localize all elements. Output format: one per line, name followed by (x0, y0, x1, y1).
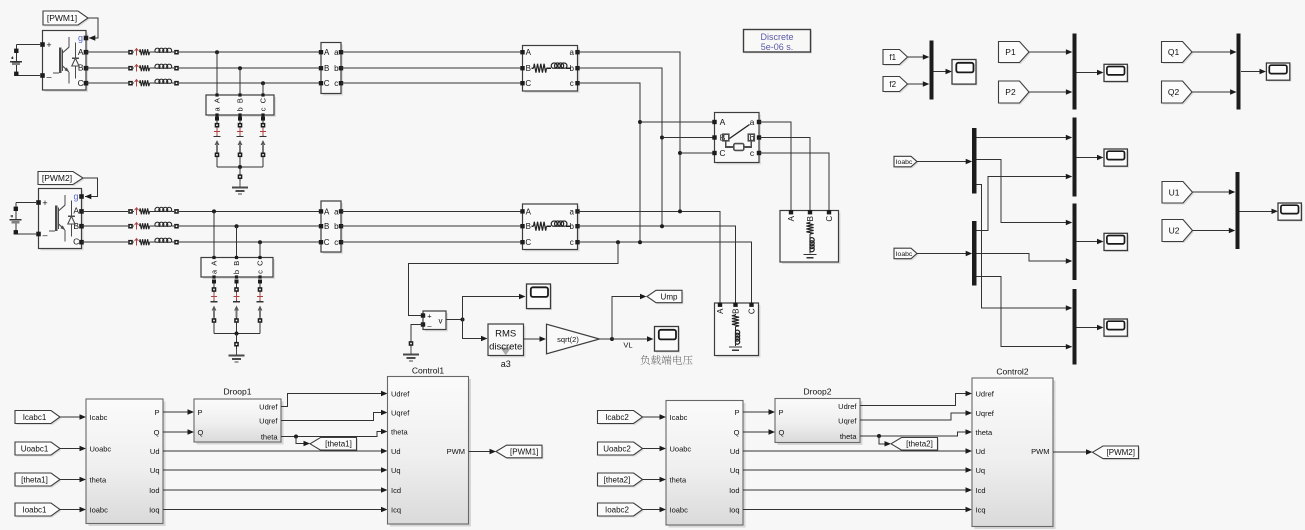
svg-text:Ioabc: Ioabc (90, 505, 109, 514)
wire RL-B2 to measure block 2 (179, 225, 321, 227)
node bus a join (678, 209, 682, 213)
svg-text:C: C (78, 78, 84, 88)
node theta1 branch (294, 435, 298, 439)
node neutral 1 (238, 165, 242, 169)
wire DM1.3 to MXC.1 (976, 185, 1072, 311)
node B1 tap (238, 66, 242, 70)
controller block Control2 (972, 378, 1056, 529)
svg-text:[theta2]: [theta2] (906, 440, 933, 449)
wire B2a to filter2 (341, 210, 523, 212)
voltage measurement block VM (421, 311, 448, 332)
svg-text:PWM: PWM (447, 447, 465, 456)
svg-text:a: a (334, 48, 339, 57)
wire node to scope S1 (463, 294, 526, 320)
wire filter2 b to load1 (578, 226, 736, 304)
svg-text:C: C (73, 237, 79, 247)
wire PWM2 to gate g2 (83, 178, 98, 199)
svg-text:a3: a3 (501, 359, 511, 369)
mux MXA (1072, 118, 1076, 197)
scope SP (1104, 64, 1129, 83)
wire filter1 a down to bus (578, 52, 681, 211)
svg-text:g: g (78, 33, 83, 43)
three-phase breaker block BRK (712, 113, 761, 165)
wire DM1.2 to MXB.1 (976, 160, 1072, 226)
series RL branch Lc2 (128, 238, 179, 245)
svg-text:C: C (525, 238, 531, 247)
from tag Ioabc2 (598, 503, 645, 518)
wire theta to goto theta2 (879, 436, 891, 447)
wire RL-C1 to measure block (179, 82, 321, 84)
svg-text:Q: Q (779, 428, 785, 437)
svg-text:U2: U2 (1169, 226, 1180, 236)
node C2 tap (258, 240, 262, 244)
wire U1 to mux (1193, 189, 1236, 194)
svg-text:Ioq: Ioq (729, 505, 739, 514)
svg-text:Uq: Uq (150, 466, 160, 475)
wire M2 P to Droop2 (743, 409, 775, 414)
wire f1 to mux (908, 54, 930, 59)
wire tap C2 down (259, 242, 261, 258)
svg-text:g: g (73, 192, 78, 202)
mux MXC (1072, 289, 1076, 365)
mux MX-Q (1237, 34, 1241, 110)
goto tag [PWM1] bottom (496, 445, 544, 459)
svg-text:b: b (334, 222, 339, 231)
wire RMS to gain (524, 336, 547, 341)
wire tap to breaker B (662, 137, 715, 139)
wire M1 Q to Droop1 (163, 429, 194, 434)
ground G3 (403, 348, 419, 361)
mux MXB (1072, 204, 1076, 281)
droop controller block Droop2 (775, 399, 863, 446)
wire MXB to scope SB (1077, 239, 1104, 244)
svg-text:theta: theta (261, 432, 279, 441)
svg-text:Udref: Udref (838, 402, 857, 411)
from tag U2 (1162, 220, 1194, 244)
three-phase V-I measurement block B1 (319, 43, 343, 96)
svg-text:Ud: Ud (730, 447, 740, 456)
node VL (610, 337, 614, 341)
wire P2 to mux (1029, 89, 1072, 94)
svg-text:B: B (324, 222, 329, 231)
three-phase series RLC load LOAD2 (780, 210, 841, 264)
wire Ioabc1 to subsystem M1 (60, 507, 86, 512)
svg-text:Ump: Ump (661, 292, 678, 301)
svg-text:–: – (42, 230, 47, 240)
series RL branch Lb1 (128, 64, 179, 71)
svg-text:5e-06 s.: 5e-06 s. (761, 42, 794, 52)
wire f2 to mux (908, 81, 930, 86)
svg-text:B: B (324, 64, 329, 73)
svg-text:Uoabc1: Uoabc1 (21, 444, 49, 453)
wire DM2.3 to MXC.2 (976, 277, 1072, 350)
node breaker tap A (638, 120, 642, 124)
wire M2 Ioq to Control2 (743, 507, 972, 512)
svg-text:Ioabc: Ioabc (670, 505, 689, 514)
svg-text:C: C (748, 308, 757, 314)
svg-text:P2: P2 (1005, 87, 1016, 97)
wire neutral2 to ground (234, 334, 239, 350)
svg-text:b: b (334, 64, 339, 73)
svg-text:A: A (210, 261, 219, 266)
svg-text:A: A (78, 47, 84, 57)
from tag [PWM1] (43, 11, 90, 27)
wire M1 Ioq to Control1 (163, 507, 388, 512)
svg-text:Control1: Control1 (412, 366, 444, 376)
wire M2 Uq to Control2 (743, 467, 972, 472)
from tag Ioabc (1) (894, 156, 919, 168)
svg-text:Udref: Udref (259, 402, 278, 411)
wire Uoabc2 to subsystem M2 (643, 446, 667, 451)
svg-text:sqrt(2): sqrt(2) (557, 335, 579, 344)
wire Droop1 Udref to Control1 (281, 391, 388, 407)
three-phase voltage measurement block Vabc1 (206, 93, 276, 117)
wire tap to breaker A (640, 121, 715, 123)
three-phase series RLC filter block F2 (520, 204, 579, 252)
wire inverter2 A to RL branch (82, 210, 129, 212)
wire B1a to filter1 (341, 51, 523, 53)
wire [theta1] to subsystem M1 (60, 477, 86, 482)
from tag [theta2] (598, 473, 645, 488)
node neutral 2 (235, 332, 239, 336)
wire filter1 c down to bus (578, 83, 641, 242)
svg-text:Icq: Icq (391, 505, 401, 514)
wire Icabc1 to subsystem M1 (60, 414, 86, 419)
wire Control1 PWM to goto PWM1 (469, 449, 497, 454)
svg-text:[PWM1]: [PWM1] (47, 13, 77, 23)
from tag f1 (883, 50, 909, 67)
voltage sensor Va1 (214, 117, 221, 158)
wire Droop2 Udref to Control2 (860, 391, 972, 406)
wire DM2.2 to MXB.2 (976, 254, 1072, 264)
svg-text:A: A (716, 308, 725, 314)
svg-text:A: A (213, 98, 222, 103)
wire node to scope S2 with label VL (612, 336, 654, 349)
node A1 tap (215, 50, 219, 54)
svg-text:A: A (324, 207, 330, 216)
svg-text:Icd: Icd (976, 486, 986, 495)
svg-text:Icabc: Icabc (670, 413, 688, 422)
svg-text:Icabc: Icabc (90, 413, 108, 422)
svg-text:Q: Q (154, 428, 160, 437)
svg-text:Ud: Ud (976, 447, 986, 456)
wire M1 Ud to Control1 (163, 448, 388, 453)
voltage sensor Vc1 (260, 117, 267, 158)
from tag U1 (1162, 182, 1194, 205)
three-phase series RLC filter block F1 (520, 46, 579, 94)
mux MX-F (929, 41, 933, 100)
svg-text:A: A (526, 48, 532, 57)
wire RL-A2 to measure block 2 (179, 210, 321, 212)
svg-text:Udref: Udref (391, 389, 410, 398)
svg-text:Q1: Q1 (1168, 47, 1180, 57)
svg-text:Udref: Udref (976, 389, 995, 398)
node VM out (461, 318, 465, 322)
wire sensors to neutral bus 1 (217, 157, 263, 167)
wire tap B1 down (239, 68, 241, 95)
wire U2 to mux (1193, 228, 1236, 233)
svg-text:[PWM2]: [PWM2] (1107, 448, 1135, 457)
svg-text:B: B (236, 98, 245, 103)
wire inverter2 C to RL branch (82, 241, 129, 243)
wire mux to scope SF (934, 69, 952, 74)
wire tap to voltage measurement + (409, 242, 619, 315)
svg-text:C: C (324, 79, 330, 88)
voltage sensor Va2 (211, 280, 218, 323)
svg-text:[PWM1]: [PWM1] (510, 447, 538, 456)
wire Uoabc1 to subsystem M1 (60, 446, 86, 451)
scope SB (1104, 233, 1129, 252)
scope SA (1104, 149, 1129, 168)
svg-text:+: + (42, 198, 47, 208)
svg-text:B: B (526, 222, 531, 231)
three-phase V-I measurement block B2 (319, 201, 343, 254)
dc voltage source E2 (9, 203, 36, 235)
svg-text:Q2: Q2 (1168, 87, 1180, 97)
wire tap B2 down (236, 226, 238, 258)
svg-text:theta: theta (976, 428, 994, 437)
svg-text:B: B (732, 309, 741, 314)
from tag [PWM2] (38, 172, 85, 187)
gain block sqrt(2) (547, 324, 602, 354)
svg-text:A: A (324, 48, 330, 57)
wire breaker c to load2 (759, 153, 829, 212)
node A2 tap (212, 209, 216, 213)
wire B1b to filter1 (341, 67, 523, 69)
svg-text:U1: U1 (1169, 187, 1180, 197)
svg-text:f2: f2 (889, 80, 896, 89)
svg-text:C: C (256, 260, 265, 266)
svg-text:P: P (154, 408, 159, 417)
wire RL-B1 to measure block (179, 67, 321, 69)
svg-text:B: B (526, 64, 531, 73)
subsystem block M2 (dq measurement) (666, 401, 746, 528)
svg-text:VL: VL (623, 341, 632, 350)
node theta2 branch (877, 434, 881, 438)
svg-text:Uoabc: Uoabc (670, 444, 692, 453)
svg-text:Uq: Uq (391, 466, 401, 475)
ground G2 (229, 349, 245, 362)
label Droop1 (224, 387, 252, 397)
wire inverter1 A to RL branch A (86, 51, 128, 53)
svg-text:Droop1: Droop1 (224, 387, 252, 397)
svg-text:Icd: Icd (391, 486, 401, 495)
from tag Uoabc1 (15, 442, 62, 457)
from tag Uoabc2 (598, 442, 645, 457)
svg-text:b: b (236, 107, 245, 111)
three-phase series RLC load LOAD1 (715, 303, 761, 358)
svg-text:C: C (719, 148, 725, 158)
svg-text:discrete: discrete (489, 342, 522, 353)
svg-text:c: c (256, 270, 265, 274)
wire breaker a to load2 (759, 122, 791, 212)
scope SU (1278, 203, 1303, 222)
svg-text:+: + (46, 40, 51, 50)
wire tap C1 down (262, 83, 264, 95)
svg-text:A: A (526, 207, 532, 216)
scope SQ (1266, 63, 1291, 82)
wire breaker b to load2 (759, 138, 810, 212)
voltage sensor Vb2 (233, 280, 240, 323)
goto tag [theta2] (891, 438, 939, 452)
svg-text:Iod: Iod (149, 486, 159, 495)
wire filter2 a to load1 (578, 211, 721, 304)
svg-text:P: P (779, 408, 784, 417)
from tag f2 (883, 77, 909, 94)
wire inverter1 B to RL branch B (86, 67, 128, 69)
wire M2 Q to Droop2 (743, 429, 775, 434)
svg-text:Iod: Iod (729, 486, 739, 495)
wire mux to scope SQ (1241, 69, 1266, 74)
svg-text:Uqref: Uqref (976, 409, 995, 418)
svg-text:v: v (439, 317, 443, 326)
svg-text:A: A (787, 215, 796, 221)
wire RL-A1 to measure block (179, 51, 321, 53)
from tag Icabc1 (15, 411, 62, 426)
svg-text:Droop2: Droop2 (804, 387, 832, 397)
svg-text:Ioq: Ioq (149, 505, 159, 514)
wire Droop1 theta to Control1 (281, 429, 388, 437)
mux MX-P (1072, 34, 1076, 110)
from tag P2 (999, 81, 1031, 105)
wire Droop2 Uqref to Control2 (860, 410, 972, 420)
wire inverter2 B to RL branch (82, 225, 129, 227)
wire mux to scope SU (1240, 209, 1278, 214)
svg-text:c: c (334, 79, 338, 88)
wire Q1 to mux (1192, 49, 1237, 54)
three-phase voltage measurement block Vabc2 (201, 256, 275, 279)
svg-text:RMS: RMS (495, 329, 516, 340)
wire node to Ump tag (612, 294, 647, 339)
svg-text:P: P (198, 408, 203, 417)
scope S1 (527, 284, 553, 310)
inverter U1 (universal bridge) with ports +,-,g,A,B,C (40, 31, 88, 93)
series RL branch Lb2 (128, 222, 179, 229)
wire inverter1 C to RL branch C (86, 82, 128, 84)
from tag P1 (999, 42, 1031, 65)
svg-text:[PWM2]: [PWM2] (42, 173, 72, 183)
from tag Q2 (1162, 81, 1194, 105)
from tag [theta1] (15, 473, 62, 488)
droop controller block Droop1 (194, 399, 284, 445)
svg-text:[theta1]: [theta1] (21, 475, 48, 484)
svg-text:Ioabc2: Ioabc2 (605, 505, 630, 514)
wire VM - to ground (409, 325, 423, 349)
wire P1 to mux (1029, 49, 1072, 54)
label Control2 (996, 367, 1028, 377)
node B2 tap (235, 224, 239, 228)
svg-text:Uoabc2: Uoabc2 (603, 444, 631, 453)
wire RL-C2 to measure block 2 (179, 241, 321, 243)
wire M1 Uq to Control1 (163, 467, 388, 472)
demux DM1 (972, 128, 976, 194)
voltage sensor Vb1 (237, 117, 244, 158)
svg-text:Ud: Ud (150, 447, 160, 456)
svg-text:theta: theta (391, 427, 409, 436)
svg-text:P: P (734, 408, 739, 417)
svg-text:PWM: PWM (1031, 447, 1049, 456)
svg-text:c: c (570, 79, 574, 88)
ground G1 (232, 181, 248, 194)
svg-text:b: b (232, 270, 241, 274)
svg-text:c: c (570, 238, 574, 247)
svg-text:–: – (46, 72, 51, 82)
inverter U2 (universal bridge) with ports +,-,g,A,B,C (36, 189, 84, 251)
wire DM1.1 to MXA.1 (976, 135, 1072, 140)
svg-text:Icabc1: Icabc1 (23, 413, 47, 422)
wire DM2.1 to MXA.2 (976, 174, 1072, 231)
wire mux to scope SP (1077, 70, 1104, 75)
wire sensors to neutral bus 2 (214, 322, 260, 334)
svg-text:a: a (569, 48, 574, 57)
dc voltage source E1 (10, 45, 40, 77)
wire Q2 to mux (1192, 89, 1237, 94)
svg-text:Icq: Icq (976, 505, 986, 514)
svg-text:B: B (78, 63, 84, 73)
controller block Control1 (388, 377, 472, 527)
wire PWM1 to gate g1 (88, 18, 98, 41)
svg-text:Uq: Uq (976, 466, 986, 475)
wire Droop1 Uqref to Control1 (281, 410, 388, 421)
svg-text:C: C (525, 79, 531, 88)
svg-text:Ioabc1: Ioabc1 (22, 505, 47, 514)
wire M1 Iod to Control1 (163, 487, 388, 492)
svg-text:a: a (569, 207, 574, 216)
wire VM output to node (446, 319, 463, 321)
svg-text:a: a (334, 207, 339, 216)
node breaker tap C (678, 151, 682, 155)
scope S2 (655, 327, 681, 353)
svg-text:Uqref: Uqref (838, 416, 857, 425)
goto tag [theta1] (310, 438, 358, 452)
svg-text:Q: Q (198, 428, 204, 437)
goto tag [PWM2] bottom (1093, 446, 1141, 460)
discrete solver info block (744, 30, 813, 54)
node bus b join (660, 224, 664, 228)
from tag Q1 (1162, 42, 1194, 65)
wire Ioabc2 to subsystem M2 (643, 507, 667, 512)
from tag Icabc2 (598, 411, 645, 426)
svg-text:C: C (324, 238, 330, 247)
RMS block a3 (488, 324, 526, 358)
svg-text:Uq: Uq (730, 466, 740, 475)
wire MXC to scope SC (1077, 325, 1104, 330)
wire filter2 c to load1 (578, 242, 752, 304)
svg-text:C: C (825, 216, 834, 222)
wire M2 Ud to Control2 (743, 448, 972, 453)
wire gain to node VL (600, 338, 613, 340)
svg-text:+: + (427, 312, 432, 321)
from tag Ioabc1 (15, 503, 62, 518)
demux DM2 (972, 221, 976, 286)
wire tap A1 down (216, 52, 218, 95)
svg-text:f1: f1 (889, 53, 896, 62)
wire Icabc2 to subsystem M2 (643, 414, 667, 419)
svg-text:A: A (720, 117, 726, 127)
svg-text:Uqref: Uqref (259, 416, 278, 425)
wire B1c to filter1 (341, 82, 523, 84)
svg-text:theta: theta (670, 475, 688, 484)
series RL branch Lc1 (128, 79, 179, 86)
wire tap to breaker C (680, 152, 715, 154)
series RL branch La1 (128, 48, 179, 55)
svg-text:theta: theta (90, 475, 108, 484)
wire node to RMS (463, 320, 488, 342)
goto tag Ump (647, 290, 684, 304)
node load voltage tap (616, 240, 620, 244)
mux MX-U (1235, 172, 1239, 249)
svg-text:Discrete: Discrete (760, 32, 793, 42)
